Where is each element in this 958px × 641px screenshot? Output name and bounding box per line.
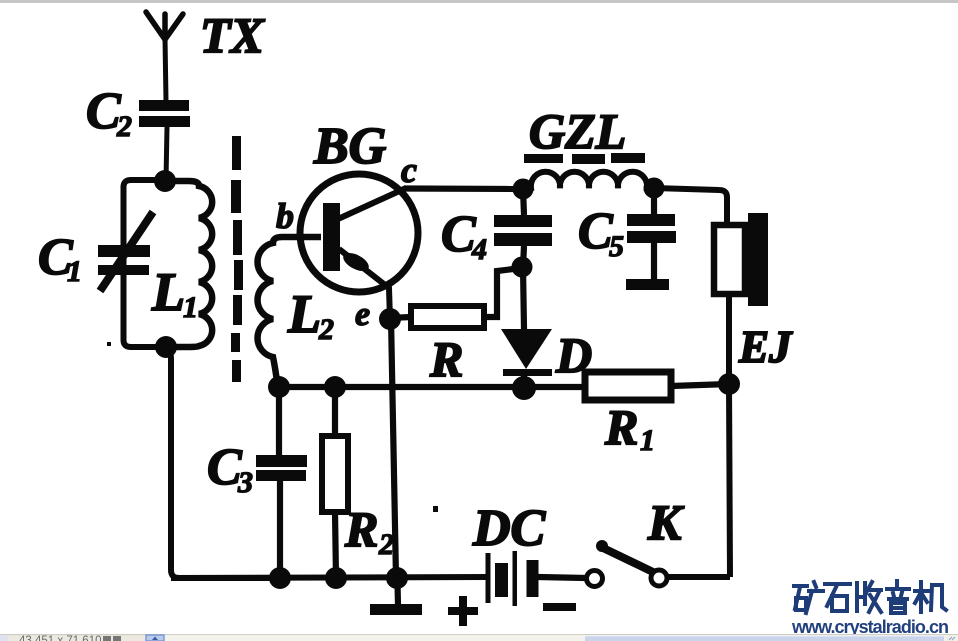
stray speck 2 <box>433 506 438 512</box>
svg-text:1: 1 <box>640 424 655 457</box>
svg-text:1: 1 <box>183 291 198 324</box>
svg-text:DC: DC <box>472 500 547 557</box>
status text <box>19 635 102 641</box>
wire tank left branch <box>123 180 165 347</box>
inductor L2 <box>258 237 321 387</box>
svg-text:BG: BG <box>313 118 386 175</box>
svg-text:2: 2 <box>116 110 132 143</box>
logo text <box>794 581 946 613</box>
capacitor C2 <box>139 100 190 127</box>
svg-text:L: L <box>287 284 321 344</box>
svg-text:5: 5 <box>609 230 624 263</box>
svg-text:EJ: EJ <box>738 322 793 372</box>
node rail C3 <box>269 567 291 589</box>
svg-text:e: e <box>355 296 370 333</box>
resistor R1 <box>585 372 671 400</box>
svg-text:1: 1 <box>67 255 82 288</box>
svg-text:K: K <box>647 494 685 550</box>
wire EJ bottom to node <box>726 294 732 384</box>
diode D <box>523 267 524 329</box>
svg-text:4: 4 <box>471 233 487 266</box>
antenna TX <box>146 12 183 40</box>
wire switch to right rail <box>668 574 730 580</box>
svg-text:43,451 x 71,610: 43,451 x 71,610 <box>19 635 102 641</box>
svg-text:3: 3 <box>237 466 253 499</box>
svg-text:2: 2 <box>318 313 334 346</box>
node tank bottom <box>155 336 177 358</box>
svg-text:b: b <box>276 196 294 236</box>
node EJ bottom <box>718 373 740 395</box>
collector wire to GZL <box>404 185 524 192</box>
bottom rail <box>171 577 486 578</box>
inductor GZL <box>523 172 654 189</box>
status bar strip <box>0 634 958 641</box>
capacitor C1 (variable) <box>98 245 150 275</box>
svg-text:2: 2 <box>378 528 394 561</box>
earphone EJ <box>714 225 745 294</box>
status left corner chip <box>0 635 8 641</box>
wire emitter down to rail <box>391 318 396 578</box>
label plus <box>448 596 478 626</box>
node collector/GZL left <box>513 179 534 200</box>
node GZL right <box>644 178 665 199</box>
node mid-left 1 <box>268 376 290 398</box>
label minus <box>543 603 576 611</box>
inductor L1 <box>165 181 212 347</box>
scrollbar track <box>164 635 946 641</box>
node mid-left 2 <box>324 376 346 398</box>
svg-text:GZL: GZL <box>529 103 626 159</box>
scrollbar left button <box>146 635 164 641</box>
scrollbar corner grip <box>946 635 958 641</box>
battery DC <box>486 551 539 606</box>
wire antenna to C2 <box>165 38 166 101</box>
scrollbar thumb <box>585 636 944 641</box>
wire battery to switch <box>538 577 586 578</box>
node diode bottom <box>512 376 536 400</box>
node below C4 <box>512 257 533 278</box>
right rail <box>729 384 730 577</box>
capacitor C5 <box>651 188 657 214</box>
node A (tank top junction) <box>154 170 176 192</box>
ground <box>394 583 401 605</box>
mid horizontal wire <box>279 384 585 390</box>
svg-text:R: R <box>429 331 463 387</box>
resistor R <box>411 306 484 328</box>
window top edge line <box>0 0 958 3</box>
transistor BG <box>300 174 418 292</box>
resistor R2 <box>332 387 338 436</box>
svg-text:R: R <box>604 399 638 455</box>
switch K <box>587 571 603 587</box>
capacitor C3 <box>276 387 282 455</box>
wire C2 to node A <box>166 127 167 180</box>
node rail ground <box>386 567 408 589</box>
svg-text:R: R <box>344 501 378 557</box>
node e <box>379 308 401 330</box>
wire tank bottom to ground rail <box>166 347 279 578</box>
node rail R2 <box>325 567 347 589</box>
capacitor C4 <box>523 189 524 215</box>
wire GZL right to EJ top <box>654 188 727 226</box>
svg-text:TX: TX <box>200 7 266 63</box>
ferrite core dashed line <box>231 136 243 382</box>
stray speck <box>107 342 111 346</box>
svg-text:c: c <box>401 150 417 190</box>
GZL core dashes <box>524 153 645 164</box>
svg-text:L: L <box>151 262 185 322</box>
